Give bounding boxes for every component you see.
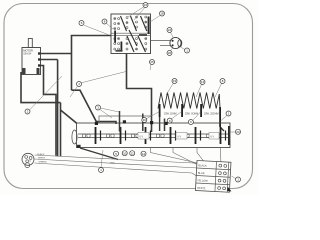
page border frame xyxy=(4,4,253,189)
wire: box A top stub xyxy=(28,39,32,48)
battery pack BT1 right end bar xyxy=(228,126,230,145)
wire: box A bottom left down and across xyxy=(21,72,61,103)
svg-text:25: 25 xyxy=(150,60,154,64)
switch S1 contact blades bottom xyxy=(127,36,134,52)
component U1 key/charger relay box xyxy=(22,48,41,75)
wire: battery row top elbow xyxy=(97,122,117,125)
svg-text:25W .25OHM: 25W .25OHM xyxy=(204,113,218,116)
battery compartment outline xyxy=(99,116,152,123)
callout 6 (tap) balloon xyxy=(188,120,193,125)
callout 2 balloon xyxy=(25,109,30,114)
callout 4 balloon xyxy=(77,82,82,87)
svg-text:16: 16 xyxy=(143,118,147,122)
switch S1 divider xyxy=(111,32,151,34)
svg-text:BRN: BRN xyxy=(110,163,115,165)
svg-text:10: 10 xyxy=(123,151,127,155)
wire drops to battery pack xyxy=(119,111,121,132)
switch S1 contact dots xyxy=(114,17,146,50)
wire J1 leads (black/white/green) xyxy=(35,155,204,164)
svg-text:WHITE: WHITE xyxy=(197,186,206,190)
switch S1 left terminal bar xyxy=(114,31,116,43)
callout 16 balloon xyxy=(142,118,147,123)
svg-text:20: 20 xyxy=(236,130,240,134)
callout 9 balloon xyxy=(167,118,172,123)
battery pack BT1 6V labels xyxy=(138,133,149,140)
svg-text:24: 24 xyxy=(168,28,172,32)
wire: vertical x70.5 xyxy=(71,36,73,91)
box A bottom terminal left xyxy=(23,68,26,74)
resistor R1 tap bar 3 xyxy=(200,104,202,117)
svg-text:GREEN: GREEN xyxy=(39,162,47,164)
solenoid M1 xyxy=(170,37,181,48)
callout 5 balloon xyxy=(114,151,119,156)
switch S1 bus marks xyxy=(139,34,147,35)
box A terminal 1 xyxy=(38,52,41,54)
wire: resistor left bar down xyxy=(159,117,161,131)
svg-text:19: 19 xyxy=(173,79,177,83)
box A bottom terminal right xyxy=(37,68,40,74)
resistor R1 tap bar 2 xyxy=(181,104,183,117)
callout 15 balloon xyxy=(143,3,148,8)
forward-reverse switch S1 body xyxy=(111,14,151,54)
svg-text:25W 1OHM: 25W 1OHM xyxy=(164,113,177,116)
callout 8 (resistor) balloon xyxy=(220,79,225,84)
wire: diagonal to battery row xyxy=(72,90,97,122)
callout 12 balloon xyxy=(141,151,146,156)
svg-text:BLACK: BLACK xyxy=(37,153,45,156)
svg-text:WHITE: WHITE xyxy=(38,158,46,160)
callout 3 balloon xyxy=(96,105,101,110)
wire: top horizontal into switch xyxy=(71,35,113,37)
wire battery taps to legend table xyxy=(151,148,214,167)
battery pack BT1 cell caps xyxy=(82,134,214,137)
callout circles xyxy=(25,3,241,183)
wire to solenoid M1 xyxy=(151,40,171,42)
battery pack BT1 terminal posts xyxy=(95,122,98,125)
wire: A t2 branch xyxy=(41,59,58,61)
box A terminal 2 xyxy=(38,58,41,60)
svg-text:12: 12 xyxy=(142,152,146,156)
callout 11 balloon xyxy=(130,151,135,156)
switch S1 contact blade crossing xyxy=(129,30,137,46)
box A terminal 3 xyxy=(38,64,41,66)
svg-text:26: 26 xyxy=(168,51,172,55)
callout 1 (lead) balloon xyxy=(99,168,104,173)
callout 1 (tap) balloon xyxy=(226,111,231,116)
battery pack BT1 cell bars xyxy=(96,127,226,144)
switch S1 right terminal bar xyxy=(148,17,150,35)
svg-text:6 V: 6 V xyxy=(211,136,215,139)
callout 18 balloon xyxy=(160,11,165,16)
resistor R1 zigzag element xyxy=(158,93,220,109)
svg-text:11: 11 xyxy=(131,151,134,155)
callout 26 balloon xyxy=(167,51,172,56)
callout 8 balloon xyxy=(102,19,107,24)
battery pack BT1 minus post xyxy=(77,145,81,148)
wire: vertical x57.5 down to plug line xyxy=(57,60,59,157)
callout 25 balloon xyxy=(150,60,155,65)
battery pack BT1 left end terminal xyxy=(72,130,77,144)
callout leader lines xyxy=(30,7,236,179)
resistor R1 tap bar 4 xyxy=(219,107,221,127)
battery pack BT1 bus lines xyxy=(78,133,229,135)
wire color legend table xyxy=(195,161,233,193)
wire: A t1 to vertical xyxy=(41,53,72,55)
svg-text:YELLOW: YELLOW xyxy=(197,178,209,183)
svg-text:13: 13 xyxy=(201,80,205,84)
svg-text:25W .5OHM: 25W .5OHM xyxy=(185,113,198,116)
switch S1 terminals top xyxy=(114,16,147,30)
callout 1 (table) balloon xyxy=(236,177,241,182)
switch S1 terminals bottom xyxy=(114,38,147,51)
svg-text:6 V: 6 V xyxy=(178,136,182,139)
callout 20 balloon xyxy=(236,129,241,134)
wire: box A t3 ladder xyxy=(41,66,57,156)
svg-text:18: 18 xyxy=(160,12,164,16)
callout 13 balloon xyxy=(200,80,205,85)
callout 10 balloon xyxy=(122,151,127,156)
callout 1 (solenoid) balloon xyxy=(185,48,190,53)
resistor R1 tap bar 1 xyxy=(159,104,161,117)
wire: resistor right bar down xyxy=(220,127,224,131)
wire: switch bottom to battery row xyxy=(127,54,152,133)
svg-text:BLACK: BLACK xyxy=(198,163,207,167)
callout 19 balloon xyxy=(172,79,177,84)
svg-text:15: 15 xyxy=(144,3,148,7)
svg-text:6 V: 6 V xyxy=(140,136,144,139)
battery pack BT1 outer box xyxy=(77,123,231,148)
svg-text:BLUE: BLUE xyxy=(198,171,205,175)
wire battery minus diagonal xyxy=(80,148,118,160)
charger receptacle J1 xyxy=(22,153,34,165)
switch S1 contact blades top xyxy=(121,16,127,31)
callout 24 balloon xyxy=(167,28,172,33)
callout 6 balloon xyxy=(79,21,84,26)
svg-text:SB-634: SB-634 xyxy=(23,53,32,56)
